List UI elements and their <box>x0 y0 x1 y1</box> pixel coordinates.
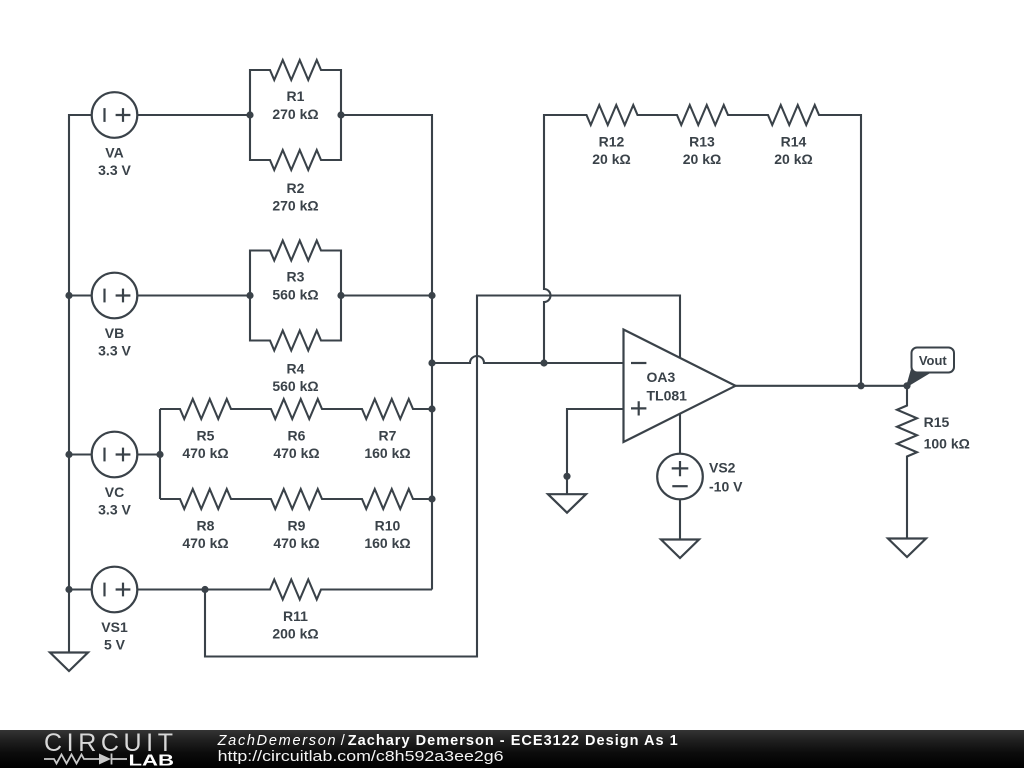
feedback wire + resistors R12 R13 R14 (hop over loop wire) <box>544 105 861 386</box>
resistor R1 270k (top of parallel box) <box>250 60 341 115</box>
wire VA to R1R2 <box>137 114 250 116</box>
svg-text:LAB: LAB <box>129 753 175 768</box>
resistors R8 R9 R10 row <box>160 489 432 509</box>
wire output node <box>736 385 908 387</box>
op-amp minus symbol <box>631 362 646 364</box>
footer bar <box>0 730 1024 768</box>
wire VS2 to ground <box>679 499 681 539</box>
wire VC tee vertical <box>159 409 161 499</box>
resistor R4 560k (bottom of parallel box) <box>250 296 341 351</box>
wire noninverting input to ground <box>567 409 624 494</box>
resistor R3 560k (top of parallel box) <box>250 241 341 296</box>
junction node at (432,295.5) <box>428 292 435 299</box>
wire VB to R3R4 <box>137 294 250 296</box>
junction node at (567,476.3) <box>563 473 570 480</box>
voltage source VC <box>92 432 138 478</box>
op-amp plus symbol <box>631 401 646 415</box>
junction node at (205,589.5) <box>201 586 208 593</box>
wire rail to VS1 <box>69 588 92 590</box>
svg-text:ZachDemerson / Zachary Demerso: ZachDemerson / Zachary Demerson - ECE312… <box>217 733 678 749</box>
wire R3R4 out to bus <box>341 294 432 296</box>
voltage source VA <box>92 92 138 138</box>
junction node at (907,385.8) <box>903 382 910 389</box>
wire VC to tee <box>137 453 160 455</box>
wire VS1 bottom loop to op-amp top pin <box>205 296 680 657</box>
Vout flag box <box>912 348 955 373</box>
wire R1R2 out + summing bus vertical <box>341 115 432 590</box>
resistor R15 100k vertical <box>897 386 917 539</box>
junction node at (432,363) <box>428 359 435 366</box>
junction node at (250,115) <box>246 111 253 118</box>
junction node at (69,589.5) <box>65 586 72 593</box>
junction node at (861,385.8) <box>857 382 864 389</box>
resistor R2 270k (bottom of parallel box) <box>250 115 341 170</box>
ground under R15 <box>888 539 926 558</box>
voltage source VS2 <box>657 454 703 500</box>
junction node at (160,454.5) <box>156 451 163 458</box>
resistor R11 200k row <box>137 580 432 600</box>
ground under VS2 <box>661 540 699 559</box>
junction node at (250,295.5) <box>246 292 253 299</box>
junction node at (341,115) <box>337 111 344 118</box>
ground at noninverting input <box>548 494 586 513</box>
junction node at (341,295.5) <box>337 292 344 299</box>
junction node at (544,363) <box>540 359 547 366</box>
junction node at (69,454.5) <box>65 451 72 458</box>
wire rail to VC <box>69 453 92 455</box>
wire left rail <box>69 115 92 653</box>
CircuitLab logo squiggle (resistor + diode) <box>44 754 127 765</box>
voltage source VS1 <box>92 567 138 613</box>
svg-text:http://circuitlab.com/c8h592a3: http://circuitlab.com/c8h592a3ee2g6 <box>218 749 504 765</box>
ground under VS1 <box>50 653 88 672</box>
wire inverting input (hop over loop wire) <box>432 356 624 363</box>
wire op-amp V- pin to VS2 <box>679 407 681 454</box>
voltage source VB <box>92 273 138 319</box>
junction node at (69,295.5) <box>65 292 72 299</box>
junction node at (432,409) <box>428 405 435 412</box>
Vout flag tail <box>907 369 932 387</box>
resistors R5 R6 R7 row <box>160 399 432 419</box>
op-amp OA3 triangle <box>624 330 736 443</box>
wire rail to VB <box>69 294 92 296</box>
junction node at (432,499) <box>428 495 435 502</box>
